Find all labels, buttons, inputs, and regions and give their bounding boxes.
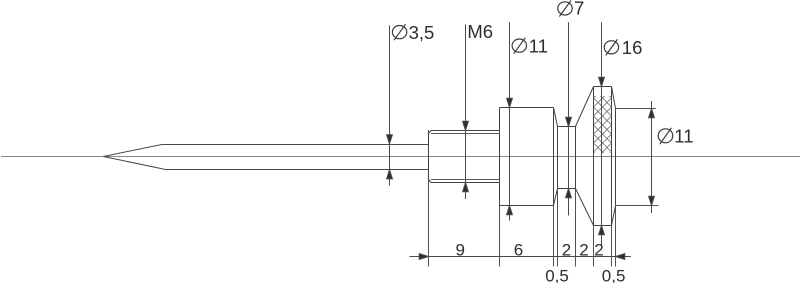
dimension text 6 (514, 241, 523, 260)
dimension text 2 first (562, 241, 571, 260)
chain extension line at thread start (428, 182, 430, 266)
svg-text:M6: M6 (467, 21, 493, 42)
svg-text:2: 2 (562, 241, 571, 260)
needle tip and shaft outline (103, 145, 428, 170)
svg-text:2: 2 (594, 241, 603, 260)
chain extension line at head start (593, 226, 595, 267)
dimension text 0,5 right (602, 267, 626, 283)
thread section M6 outer outline (429, 130, 500, 183)
groove diameter 7 outline (558, 127, 576, 189)
svg-text:0,5: 0,5 (602, 267, 626, 283)
cone taper to knurled head (576, 87, 594, 226)
svg-text:16: 16 (622, 37, 643, 58)
label diameter 16 (604, 37, 642, 58)
dimension diameter 7 leader line (566, 22, 572, 215)
dimension text 2 second (579, 241, 588, 260)
chain extension line at head end (611, 226, 613, 267)
dimension M6 leader line (463, 24, 469, 199)
svg-text:2: 2 (579, 241, 588, 260)
knurled head diameter 16 outline (594, 87, 612, 226)
dimension 3,5 leader line (387, 25, 393, 185)
chain extension line at end face (615, 206, 617, 267)
dimension diameter 16 leader line (599, 22, 605, 246)
knurl cross hatch (594, 80, 612, 170)
right diameter 11 dimension line (649, 101, 655, 213)
svg-text:6: 6 (514, 241, 523, 260)
svg-text:3,5: 3,5 (409, 22, 435, 43)
bottom chain dimension line (409, 254, 630, 260)
rear chamfer to end face (612, 87, 616, 226)
label right diameter 11 (658, 125, 693, 146)
dimension text 0,5 left (545, 267, 569, 283)
cylinder diameter 11 outline (500, 108, 554, 267)
chain extension line at cylinder end (553, 206, 555, 267)
chain extension line at thread end (499, 206, 501, 267)
dimension text 2 third (594, 241, 603, 260)
centerline (1, 156, 800, 158)
end face diameter 11 (615, 109, 617, 206)
label diameter 7 (558, 0, 584, 18)
dimension diameter 11 leader line (507, 22, 513, 220)
chain extension line at groove start (557, 189, 559, 267)
label diameter 3,5 (392, 22, 434, 43)
neck taper to groove (554, 108, 558, 206)
chain extension line at groove end (575, 189, 577, 267)
thread root lines M6 (431, 134, 500, 180)
dimension text 9 (456, 241, 465, 260)
right diameter 11 extension lines (616, 109, 659, 206)
svg-text:0,5: 0,5 (545, 267, 569, 283)
svg-text:7: 7 (574, 0, 584, 18)
label M6 (467, 21, 493, 42)
svg-text:9: 9 (456, 241, 465, 260)
svg-text:11: 11 (674, 125, 693, 146)
svg-text:11: 11 (529, 35, 548, 56)
label diameter 11 (512, 35, 548, 56)
